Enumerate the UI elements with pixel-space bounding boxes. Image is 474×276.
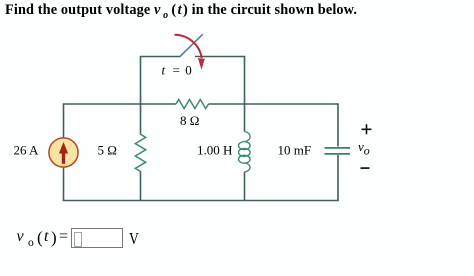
- label t = 0: [162, 63, 192, 78]
- output polarity − sign: [361, 167, 370, 169]
- wire: below inductor: [244, 172, 246, 201]
- wire: bottom of outer loop (ground node): [63, 200, 339, 202]
- resistor R1 8 Ohm (in top wire): [176, 100, 209, 109]
- wire: switch branch right riser: [244, 57, 246, 132]
- current source I1 (26 A): [49, 138, 78, 167]
- value label 1.00 H: [197, 143, 232, 158]
- resistor R2 5 Ohm (left middle branch): [135, 134, 145, 172]
- wire: right side of outer loop: [337, 104, 339, 201]
- label 26 A: [14, 143, 40, 158]
- capacitor C1 (10 mF, right branch): [325, 148, 351, 154]
- output polarity + sign: [362, 124, 372, 134]
- switch SW1 blade (open): [180, 34, 203, 56]
- inductor L1 (1.00 H, middle branch): [239, 132, 251, 173]
- wire: switch top horizontal left segment: [140, 56, 181, 58]
- switch closing action arrow (red arc): [175, 35, 205, 70]
- wire: left side of outer loop: [63, 104, 65, 201]
- title: [5, 2, 357, 21]
- wire: switch branch left riser: [140, 57, 142, 134]
- unit V: [129, 230, 139, 247]
- answer input box: [71, 228, 123, 248]
- value label 5 Ω: [98, 143, 117, 158]
- wire: below 5 Ohm resistor: [140, 172, 142, 201]
- wire: top of outer loop (node a): [63, 103, 339, 105]
- value label 8 Ω: [180, 113, 199, 128]
- wire: switch top horizontal right segment: [195, 56, 245, 58]
- value label 10 mF: [278, 143, 312, 158]
- output node label v_o: [358, 139, 370, 158]
